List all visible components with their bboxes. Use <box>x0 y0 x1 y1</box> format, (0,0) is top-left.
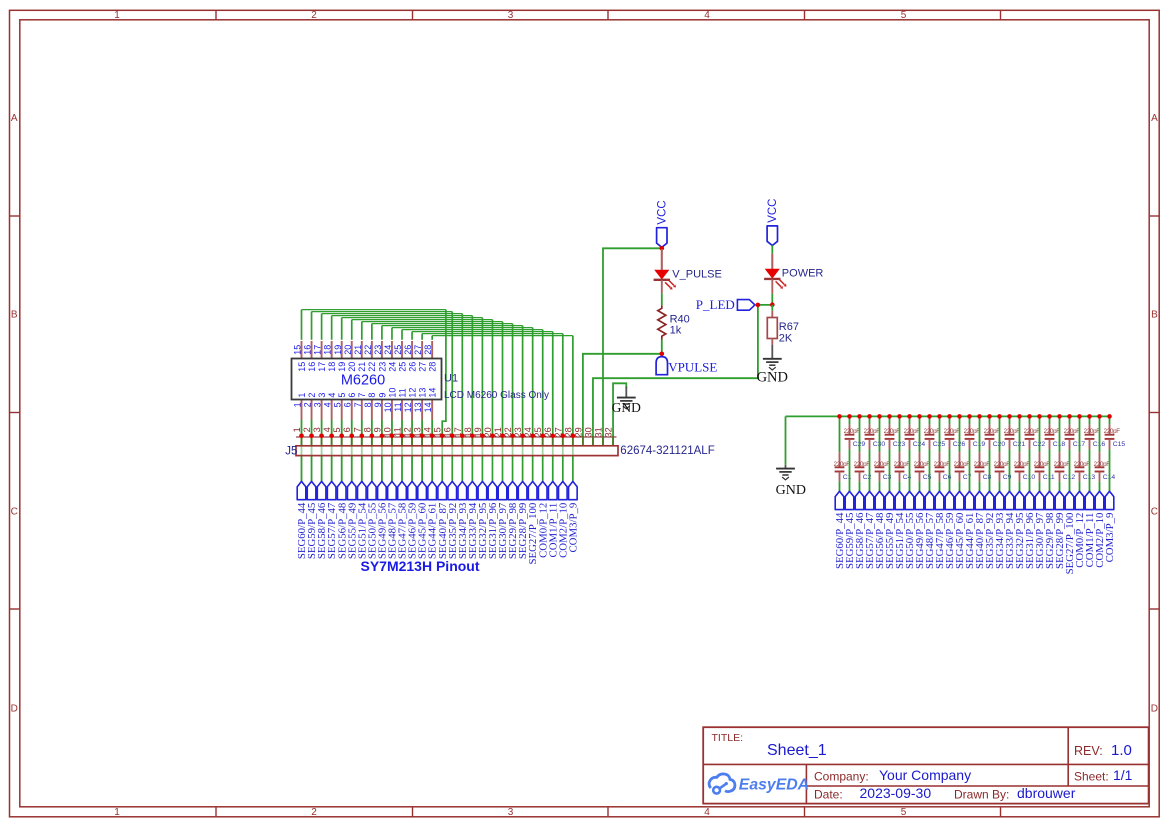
svg-text:11: 11 <box>397 388 407 397</box>
capacitor C18 220pF <box>1044 416 1066 491</box>
svg-text:VCC: VCC <box>767 199 779 223</box>
svg-text:25: 25 <box>397 362 407 372</box>
wire M6260 pin 5 to J5 pin 5 <box>341 420 343 482</box>
port SEG55/P_49 (left) <box>346 481 358 559</box>
port SEG55/P_49 (right) <box>884 491 896 569</box>
svg-text:13: 13 <box>418 388 428 398</box>
port SEG30/P_97 (left) <box>497 481 509 559</box>
svg-text:220pF: 220pF <box>1014 461 1031 468</box>
capacitor C12 220pF <box>1054 416 1076 491</box>
svg-text:220pF: 220pF <box>1084 428 1101 435</box>
svg-text:5: 5 <box>901 807 907 818</box>
wire M6260 pin 8 to J5 pin 8 <box>371 420 373 482</box>
svg-text:26: 26 <box>403 345 413 355</box>
svg-text:28: 28 <box>423 345 433 355</box>
port SEG40/P_87 (left) <box>437 481 449 559</box>
port SEG44/P_61 (right) <box>964 491 976 569</box>
IC U1 M6260 LCD glass <box>292 341 550 420</box>
svg-text:220pF: 220pF <box>1074 461 1091 468</box>
svg-text:220pF: 220pF <box>954 461 971 468</box>
port SEG27/P_100 (left) <box>527 481 539 564</box>
svg-text:13: 13 <box>413 402 423 412</box>
svg-text:23: 23 <box>377 362 387 372</box>
capacitor C25 220pF <box>924 416 946 491</box>
port COM0/P_12 (left) <box>537 481 549 558</box>
svg-text:SY7M213H Pinout: SY7M213H Pinout <box>360 558 479 574</box>
port SEG45/P_60 (right) <box>954 491 966 569</box>
svg-text:3: 3 <box>317 393 327 398</box>
port SEG49/P_56 (right) <box>914 491 926 569</box>
port COM0/P_12 (right) <box>1074 491 1086 568</box>
port SEG57/P_47 (left) <box>326 481 338 559</box>
svg-text:8: 8 <box>362 427 372 432</box>
svg-text:LCD M6260 Glass Only: LCD M6260 Glass Only <box>444 390 549 401</box>
svg-text:Sheet:: Sheet: <box>1074 770 1109 784</box>
svg-text:14: 14 <box>423 402 433 412</box>
capacitor C4 220pF <box>894 416 912 491</box>
svg-text:23: 23 <box>373 345 383 355</box>
svg-text:26: 26 <box>407 362 417 372</box>
svg-text:220pF: 220pF <box>1064 428 1081 435</box>
svg-text:220pF: 220pF <box>844 428 861 435</box>
junction dots on J5 pins <box>299 434 575 439</box>
svg-text:V_PULSE: V_PULSE <box>672 269 722 281</box>
port SEG47/P_58 (left) <box>397 481 409 559</box>
node VPULSE junction <box>660 352 665 357</box>
svg-text:220pF: 220pF <box>884 428 901 435</box>
svg-text:POWER: POWER <box>782 268 824 280</box>
svg-text:220pF: 220pF <box>994 461 1011 468</box>
svg-text:2: 2 <box>311 10 317 21</box>
svg-text:24: 24 <box>383 345 393 355</box>
svg-text:5: 5 <box>333 402 343 407</box>
svg-text:REV:: REV: <box>1074 744 1103 758</box>
capacitor C6 220pF <box>934 416 952 491</box>
port SEG50/P_55 (left) <box>366 481 378 559</box>
wire M6260 pin 20 to J5 pin 20 <box>352 320 493 482</box>
capacitor C7 220pF <box>954 416 972 491</box>
port SEG47/P_58 (right) <box>934 491 946 569</box>
wire M6260 pin 22 to J5 pin 22 <box>372 324 513 482</box>
svg-text:1/1: 1/1 <box>1113 767 1133 783</box>
port SEG35/P_92 (right) <box>984 491 996 569</box>
svg-text:220pF: 220pF <box>894 461 911 468</box>
port SEG32/P_95 (left) <box>477 481 489 559</box>
capacitor C23 220pF <box>884 416 906 491</box>
svg-text:62674-321121ALF: 62674-321121ALF <box>620 445 714 457</box>
svg-text:22: 22 <box>367 362 377 372</box>
svg-text:220pF: 220pF <box>924 428 941 435</box>
port SEG34/P_93 (right) <box>994 491 1006 569</box>
svg-text:2: 2 <box>302 427 312 432</box>
svg-text:1: 1 <box>297 393 307 398</box>
svg-text:17: 17 <box>317 362 327 372</box>
ground GND (capacitor bank) <box>776 465 806 498</box>
port SEG27/P_100 (right) <box>1064 491 1076 574</box>
wire J5 pin 31 to VCC node <box>603 248 662 445</box>
svg-text:9: 9 <box>372 427 382 432</box>
wire M6260 pin 28 to J5 pin 28 <box>432 336 573 482</box>
port COM1/P_11 (left) <box>547 481 559 557</box>
port SEG48/P_57 (left) <box>387 481 399 559</box>
svg-text:14: 14 <box>428 388 438 398</box>
svg-text:220pF: 220pF <box>934 461 951 468</box>
port SEG30/P_97 (right) <box>1034 491 1046 569</box>
port SEG40/P_87 (right) <box>974 491 986 569</box>
svg-text:220pF: 220pF <box>964 428 981 435</box>
port SEG45/P_60 (left) <box>417 481 429 559</box>
ground GND (near J5) <box>612 387 641 415</box>
LED POWER indicator <box>764 253 823 293</box>
svg-text:30: 30 <box>583 427 593 437</box>
capacitor C14 220pF <box>1094 416 1116 491</box>
port SEG58/P_46 (left) <box>316 481 328 559</box>
port SEG59/P_45 (right) <box>844 491 856 569</box>
port COM3/P_9 (left) <box>567 481 579 552</box>
capacitor C3 220pF <box>874 416 892 491</box>
wire LED POWER to node <box>771 294 773 305</box>
wire M6260 pin 3 to J5 pin 3 <box>321 420 323 482</box>
port SEG50/P_55 (right) <box>904 491 916 569</box>
wire J5 pin 29 to VPULSE node <box>583 354 662 446</box>
svg-text:17: 17 <box>313 345 323 355</box>
svg-text:5: 5 <box>901 10 907 21</box>
svg-text:28: 28 <box>428 362 438 372</box>
svg-text:9: 9 <box>373 402 383 407</box>
wire M6260 pin 21 to J5 pin 21 <box>362 322 503 482</box>
svg-text:20: 20 <box>343 345 353 355</box>
svg-text:12: 12 <box>407 388 417 398</box>
svg-text:3: 3 <box>313 402 323 407</box>
svg-text:18: 18 <box>323 345 333 355</box>
wire M6260 pin 25 to J5 pin 25 <box>402 330 543 482</box>
wire M6260 pin 9 to J5 pin 9 <box>381 420 383 482</box>
wire rail to GND <box>785 416 787 464</box>
svg-text:9: 9 <box>377 393 387 398</box>
port SEG31/P_96 (left) <box>487 481 499 559</box>
svg-text:12: 12 <box>403 402 413 412</box>
svg-text:1: 1 <box>293 402 303 407</box>
wire M6260 pin 2 to J5 pin 2 <box>311 420 313 482</box>
node P_LED junction <box>756 303 761 308</box>
capacitor C13 220pF <box>1074 416 1096 491</box>
capacitor C22 220pF <box>1024 416 1046 491</box>
power port VCC (right) <box>767 199 779 246</box>
port SEG46/P_59 (left) <box>407 481 419 559</box>
power port VCC (left) <box>657 200 669 247</box>
svg-text:220pF: 220pF <box>904 428 921 435</box>
svg-text:220pF: 220pF <box>1044 428 1061 435</box>
svg-text:1.0: 1.0 <box>1111 742 1132 759</box>
svg-text:1k: 1k <box>670 324 682 336</box>
EasyEDA logo <box>709 774 809 794</box>
junction dots on capacitor rail <box>837 414 1112 419</box>
capacitor C24 220pF <box>904 416 926 491</box>
capacitor C15 220pF <box>1104 416 1126 491</box>
capacitor C19 220pF <box>964 416 986 491</box>
wire J5 pin 30 to P_LED node <box>593 305 758 446</box>
title block <box>703 727 1148 803</box>
svg-text:GND: GND <box>757 369 788 385</box>
wire M6260 pin 1 to J5 pin 1 <box>301 420 303 482</box>
wire M6260 pin 4 to J5 pin 4 <box>331 420 333 482</box>
svg-text:6: 6 <box>342 427 352 432</box>
svg-text:220pF: 220pF <box>1104 428 1121 435</box>
svg-text:C: C <box>1151 507 1158 518</box>
svg-text:27: 27 <box>413 345 423 355</box>
svg-text:4: 4 <box>704 10 710 21</box>
resistor R40 1k <box>658 305 690 339</box>
svg-text:220pF: 220pF <box>1094 461 1111 468</box>
svg-text:Drawn By:: Drawn By: <box>954 788 1009 802</box>
svg-text:2023-09-30: 2023-09-30 <box>860 785 932 801</box>
svg-text:24: 24 <box>387 362 397 372</box>
capacitor C29 220pF <box>844 416 866 491</box>
port SEG56/P_48 (left) <box>336 481 348 559</box>
port SEG34/P_93 (left) <box>457 481 469 559</box>
port SEG49/P_56 (left) <box>377 481 389 559</box>
svg-text:Company:: Company: <box>814 770 869 784</box>
port SEG44/P_61 (left) <box>427 481 439 559</box>
wire M6260 pin 19 to J5 pin 19 <box>342 318 483 482</box>
svg-text:4: 4 <box>322 427 332 432</box>
port SEG29/P_98 (left) <box>507 481 519 559</box>
port COM3/P_9 (right) <box>1104 491 1116 562</box>
port SEG60/P_44 (right) <box>834 491 846 569</box>
port SEG28/P_99 (right) <box>1054 491 1066 569</box>
net port P_LED <box>696 297 755 312</box>
node LED/R67 junction <box>770 302 775 307</box>
capacitor C16 220pF <box>1084 416 1106 491</box>
port SEG56/P_48 (right) <box>874 491 886 569</box>
svg-text:D: D <box>11 704 18 715</box>
svg-text:2: 2 <box>307 393 317 398</box>
svg-text:7: 7 <box>353 402 363 407</box>
wire M6260 pin 18 to J5 pin 18 <box>332 316 473 482</box>
port COM1/P_11 (right) <box>1084 491 1096 567</box>
svg-text:dbrouwer: dbrouwer <box>1017 785 1076 801</box>
svg-text:6: 6 <box>347 393 357 398</box>
svg-text:B: B <box>11 310 18 321</box>
port SEG28/P_99 (left) <box>517 481 529 559</box>
svg-text:32: 32 <box>604 427 614 437</box>
svg-text:5: 5 <box>337 393 347 398</box>
node VCC junction <box>660 246 665 251</box>
wire M6260 pin 27 to J5 pin 27 <box>422 334 563 482</box>
svg-text:Your Company: Your Company <box>879 767 971 783</box>
svg-text:220pF: 220pF <box>944 428 961 435</box>
svg-text:1: 1 <box>292 427 302 432</box>
svg-text:220pF: 220pF <box>1004 428 1021 435</box>
port SEG35/P_92 (left) <box>447 481 459 559</box>
svg-text:1: 1 <box>114 807 120 818</box>
port SEG32/P_95 (right) <box>1014 491 1026 569</box>
svg-text:J5: J5 <box>285 445 297 457</box>
svg-text:220pF: 220pF <box>834 461 851 468</box>
svg-text:D: D <box>1151 704 1158 715</box>
capacitor C10 220pF <box>1014 416 1036 491</box>
svg-text:7: 7 <box>352 427 362 432</box>
wire M6260 pin 23 to J5 pin 23 <box>382 326 523 482</box>
svg-text:220pF: 220pF <box>984 428 1001 435</box>
wire M6260 pin 17 to J5 pin 17 <box>322 314 463 482</box>
wire M6260 pin 11 to J5 pin 11 <box>401 420 403 482</box>
svg-text:18: 18 <box>327 362 337 372</box>
port SEG33/P_94 (right) <box>1004 491 1016 569</box>
svg-text:TITLE:: TITLE: <box>712 732 744 744</box>
wire P_LED to node <box>755 304 772 306</box>
port SEG48/P_57 (right) <box>924 491 936 569</box>
wire M6260 pin 14 to J5 pin 14 <box>431 420 433 482</box>
capacitor C5 220pF <box>914 416 932 491</box>
svg-text:3: 3 <box>312 427 322 432</box>
capacitor C9 220pF <box>994 416 1012 491</box>
LED LED? V_PULSE indicator <box>654 249 722 293</box>
svg-text:2: 2 <box>311 807 317 818</box>
port SEG46/P_59 (right) <box>944 491 956 569</box>
capacitor C11 220pF <box>1034 416 1055 491</box>
svg-text:M6260: M6260 <box>341 373 385 389</box>
port SEG51/P_54 (right) <box>894 491 906 569</box>
svg-text:8: 8 <box>367 393 377 398</box>
svg-text:15: 15 <box>297 362 307 372</box>
svg-text:16: 16 <box>303 345 313 355</box>
capacitor C17 220pF <box>1064 416 1086 491</box>
svg-text:220pF: 220pF <box>1024 428 1041 435</box>
svg-text:VCC: VCC <box>657 200 669 224</box>
svg-text:U1: U1 <box>444 373 458 385</box>
port COM2/P_10 (left) <box>557 481 569 558</box>
svg-text:A: A <box>1151 113 1158 124</box>
svg-text:2K: 2K <box>779 332 793 344</box>
svg-text:COM3/P_9: COM3/P_9 <box>1104 513 1116 563</box>
capacitor C20 220pF <box>984 416 1006 491</box>
connector J5 62674-321121ALF <box>285 427 714 457</box>
capacitor C21 220pF <box>1004 416 1026 491</box>
svg-text:19: 19 <box>333 345 343 355</box>
svg-text:7: 7 <box>357 393 367 398</box>
svg-text:10: 10 <box>387 388 397 398</box>
wire M6260 pin 6 to J5 pin 6 <box>351 420 353 482</box>
svg-text:1: 1 <box>114 10 120 21</box>
svg-text:C: C <box>11 507 18 518</box>
svg-text:21: 21 <box>357 362 367 372</box>
port SEG59/P_45 (left) <box>306 481 318 559</box>
wire R40 to VPULSE <box>661 340 663 354</box>
svg-text:220pF: 220pF <box>914 461 931 468</box>
svg-text:31: 31 <box>594 427 604 437</box>
svg-text:VPULSE: VPULSE <box>668 360 717 375</box>
svg-text:P_LED: P_LED <box>696 297 735 312</box>
svg-text:GND: GND <box>612 400 641 415</box>
svg-text:5: 5 <box>332 427 342 432</box>
svg-text:220pF: 220pF <box>854 461 871 468</box>
svg-text:20: 20 <box>347 362 357 372</box>
svg-text:27: 27 <box>418 362 428 372</box>
svg-text:3: 3 <box>508 10 514 21</box>
wire M6260 pin 15 to J5 pin 15 <box>302 310 446 482</box>
wire M6260 pin 13 to J5 pin 13 <box>421 420 423 482</box>
wire M6260 pin 16 to J5 pin 16 <box>312 312 453 482</box>
svg-text:8: 8 <box>363 402 373 407</box>
port SEG31/P_96 (right) <box>1024 491 1036 569</box>
svg-text:25: 25 <box>393 345 403 355</box>
port SEG29/P_98 (right) <box>1044 491 1056 569</box>
port SEG33/P_94 (left) <box>467 481 479 559</box>
svg-text:B: B <box>1151 310 1158 321</box>
wire VCC to LED POWER <box>771 245 773 253</box>
capacitor C26 220pF <box>944 416 966 491</box>
wire capacitor top rail <box>786 415 1110 417</box>
svg-text:15: 15 <box>293 345 303 355</box>
svg-text:11: 11 <box>393 402 403 411</box>
svg-text:3: 3 <box>508 807 514 818</box>
svg-text:4: 4 <box>323 402 333 407</box>
svg-text:10: 10 <box>383 402 393 412</box>
svg-text:220pF: 220pF <box>1054 461 1071 468</box>
wire M6260 pin 7 to J5 pin 7 <box>361 420 363 482</box>
resistor R67 2K <box>767 305 799 345</box>
wire M6260 pin 12 to J5 pin 12 <box>411 420 413 482</box>
svg-text:21: 21 <box>353 345 363 355</box>
wire M6260 pin 26 to J5 pin 26 <box>412 332 553 482</box>
port SEG60/P_44 (left) <box>296 481 308 559</box>
port SEG58/P_46 (right) <box>854 491 866 569</box>
svg-text:6: 6 <box>343 402 353 407</box>
svg-text:EasyEDA: EasyEDA <box>739 777 809 794</box>
svg-text:220pF: 220pF <box>864 428 881 435</box>
svg-text:GND: GND <box>776 483 806 498</box>
svg-text:2: 2 <box>303 402 313 407</box>
wire LED to R40 <box>661 293 663 305</box>
capacitor C1 220pF <box>834 416 852 491</box>
svg-text:4: 4 <box>704 807 710 818</box>
wire J5 pin 32 to GND <box>613 383 626 446</box>
svg-text:Sheet_1: Sheet_1 <box>767 742 827 759</box>
capacitor C2 220pF <box>854 416 872 491</box>
ground GND (below R67) <box>757 345 788 385</box>
port COM2/P_10 (right) <box>1094 491 1106 568</box>
svg-text:COM3/P_9: COM3/P_9 <box>567 503 579 553</box>
svg-text:4: 4 <box>327 393 337 398</box>
svg-text:Date:: Date: <box>814 788 843 802</box>
net port VPULSE <box>656 357 717 375</box>
capacitor C30 220pF <box>864 416 886 491</box>
svg-text:22: 22 <box>363 345 373 355</box>
svg-text:220pF: 220pF <box>874 461 891 468</box>
svg-text:19: 19 <box>337 362 347 372</box>
svg-text:16: 16 <box>307 362 317 372</box>
svg-text:A: A <box>11 113 18 124</box>
port SEG51/P_54 (left) <box>356 481 368 559</box>
svg-text:220pF: 220pF <box>974 461 991 468</box>
wire M6260 pin 24 to J5 pin 24 <box>392 328 533 482</box>
svg-text:C15: C15 <box>1113 441 1126 448</box>
port SEG57/P_47 (right) <box>864 491 876 569</box>
capacitor C8 220pF <box>974 416 992 491</box>
svg-text:220pF: 220pF <box>1034 461 1051 468</box>
wire M6260 pin 10 to J5 pin 10 <box>391 420 393 482</box>
